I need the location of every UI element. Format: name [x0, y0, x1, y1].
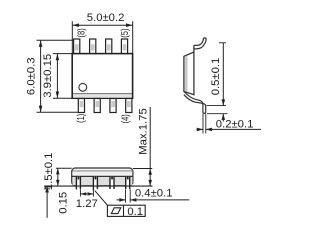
body [184, 52, 194, 95]
svg-text:1.5±0.1: 1.5±0.1 [43, 153, 55, 191]
bottom lead hook [184, 91, 203, 112]
svg-text:Max.1.75: Max.1.75 [138, 108, 150, 154]
svg-text:0.1: 0.1 [127, 206, 143, 218]
dim 1.27 [79, 189, 81, 196]
body inner bottom chamfer band [73, 94, 131, 98]
body top view [72, 54, 132, 99]
pin1 [76, 177, 80, 187]
dim 0.15 [44, 188, 50, 190]
svg-text:0.5±0.1: 0.5±0.1 [210, 58, 222, 96]
front leads [76, 176, 129, 190]
svg-text:1.27: 1.27 [76, 198, 98, 210]
svg-text:0.4±0.1: 0.4±0.1 [135, 187, 173, 199]
top pins (8..5) [74, 39, 128, 53]
svg-text:(8): (8) [75, 28, 87, 37]
svg-text:6.0±0.3: 6.0±0.3 [26, 57, 38, 95]
top lead neck [193, 45, 195, 52]
pin2 [93, 177, 97, 187]
svg-text:5.0±0.2: 5.0±0.2 [87, 12, 125, 24]
svg-text:0.2±0.1: 0.2±0.1 [216, 118, 254, 130]
body front [72, 168, 133, 186]
bottom pins (1..4) [78, 99, 132, 113]
top lead hook [194, 39, 204, 46]
svg-text:3.9±0.15: 3.9±0.15 [42, 54, 54, 98]
svg-text:(1): (1) [75, 114, 87, 123]
pin1 marker circle [79, 83, 87, 91]
svg-text:(5): (5) [119, 28, 131, 37]
datum feature frame [95, 191, 108, 206]
svg-text:(4): (4) [120, 114, 132, 123]
ext lines below lead tip [202, 114, 204, 134]
pin4 [126, 177, 130, 187]
svg-text:0.15: 0.15 [58, 192, 70, 214]
dim 0.4±0.1 [125, 189, 127, 202]
seating line [44, 185, 152, 187]
pin3 [110, 177, 114, 187]
